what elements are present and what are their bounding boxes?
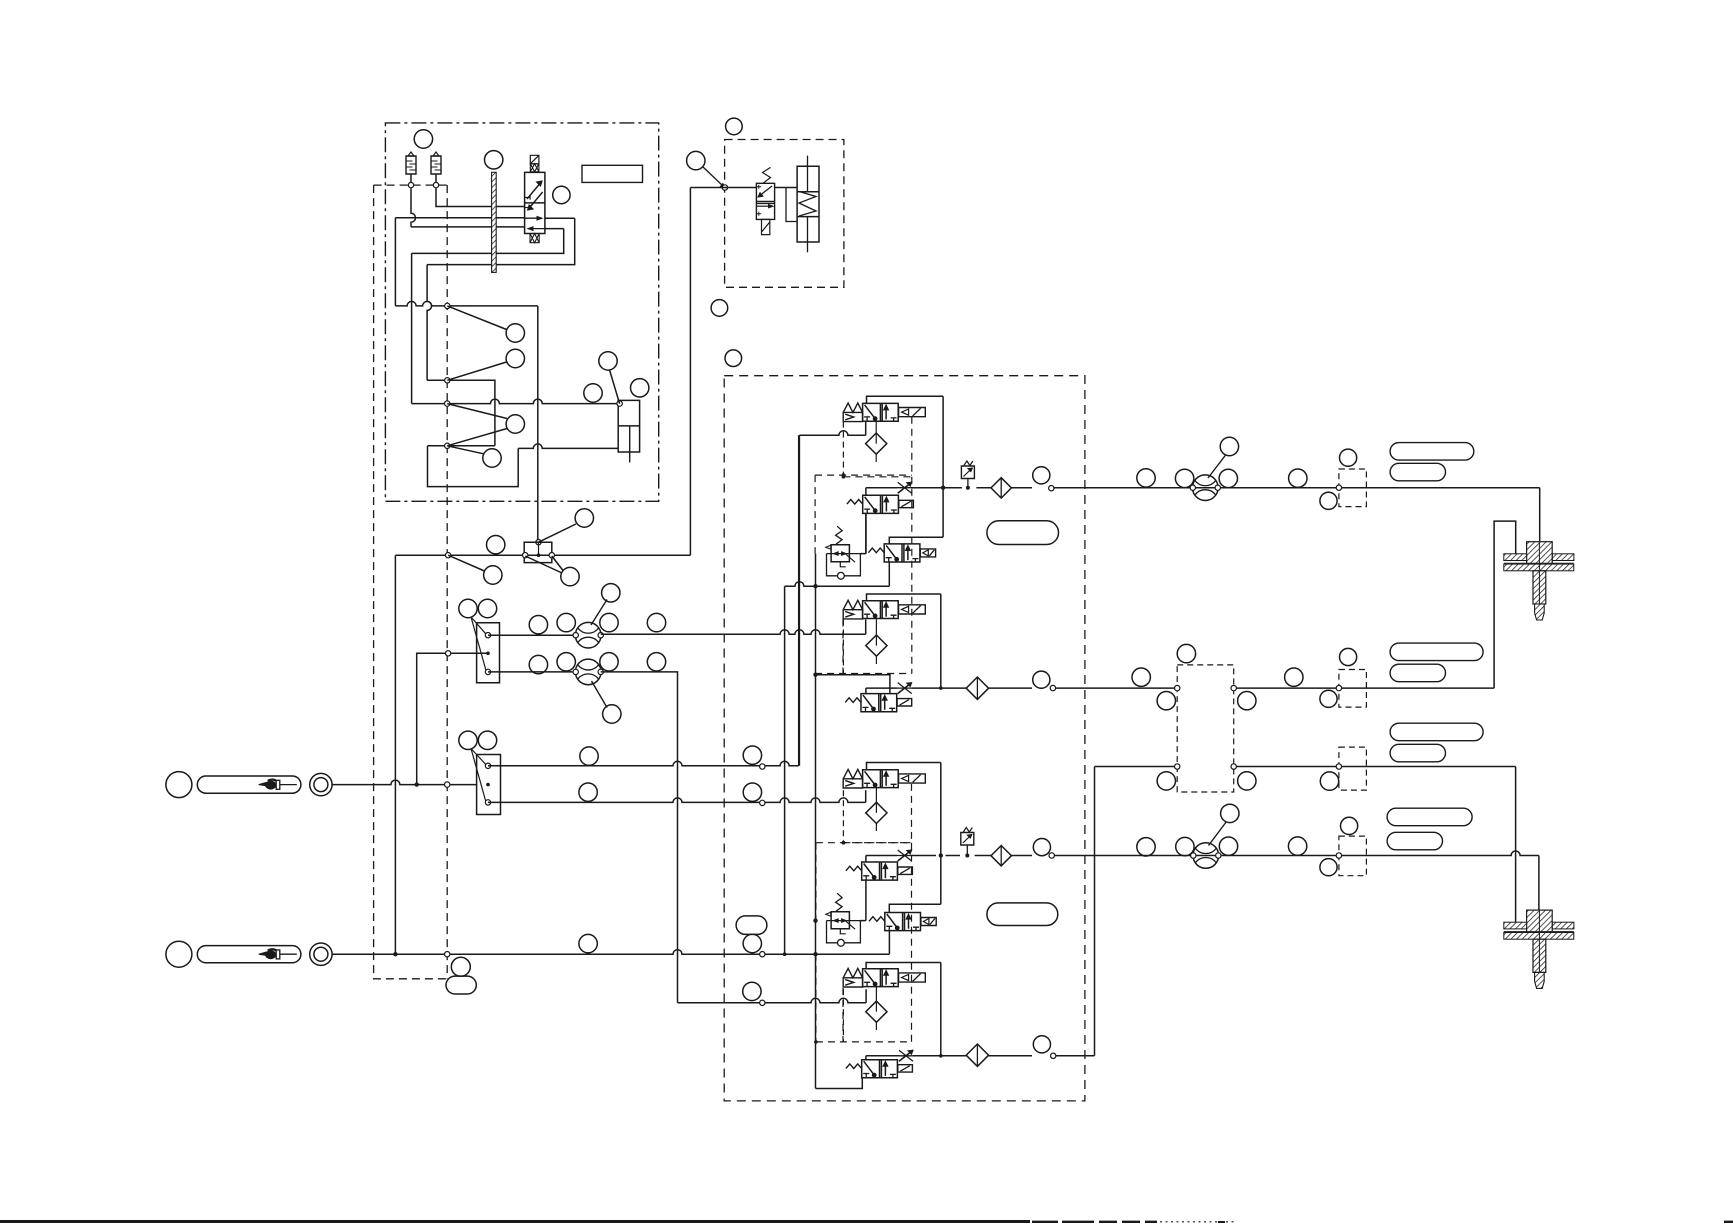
node row2 box bbox=[1050, 685, 1055, 690]
node row4 box bbox=[1049, 853, 1054, 858]
balloon below B1 bbox=[711, 300, 728, 317]
wire REG1 out bbox=[860, 553, 862, 555]
node row3 sq bbox=[1336, 764, 1341, 769]
lever BV4 bbox=[1209, 822, 1227, 846]
node cyl bbox=[617, 401, 622, 406]
node sw-in bbox=[536, 540, 541, 545]
enclosure A1 (dash-dot box) bbox=[385, 123, 658, 501]
star V2 bbox=[898, 482, 912, 493]
node bv2row bbox=[760, 1000, 765, 1005]
wire rowD out bbox=[866, 1055, 1095, 1057]
node row380 bbox=[445, 378, 450, 383]
muffler row3 b bbox=[1390, 744, 1445, 762]
node F2 bbox=[433, 182, 438, 187]
exhaust V9 dash bbox=[842, 989, 844, 1042]
cross actuator X2 bbox=[1527, 910, 1553, 935]
junction outD bbox=[939, 1054, 943, 1058]
ballvalve BV1 bbox=[575, 622, 601, 648]
check diamond D5 bbox=[966, 1044, 988, 1066]
diamond V4 bbox=[866, 635, 887, 656]
balloon row1 box bbox=[1033, 467, 1050, 484]
muffler row1 a bbox=[1390, 443, 1474, 461]
valve V6 bbox=[863, 770, 899, 788]
node lever1 bbox=[445, 782, 450, 787]
vertical right B bbox=[940, 594, 942, 688]
label box bbox=[582, 165, 643, 182]
riser V2 bbox=[865, 488, 867, 554]
balloon SV2 r3 bbox=[579, 934, 597, 952]
balloon B-in bbox=[687, 151, 705, 169]
wire F1 to valve bbox=[411, 188, 416, 227]
wire row4 right bbox=[1085, 851, 1539, 856]
wire V10 bottom bbox=[816, 1078, 863, 1089]
node row4 sq bbox=[1336, 853, 1341, 858]
wire row1 out bbox=[866, 487, 1085, 489]
node tdr l2 bbox=[1175, 685, 1180, 690]
wire V6 top bbox=[867, 763, 941, 770]
solenoid V0 top bbox=[530, 155, 539, 164]
U-loop manifold bbox=[428, 446, 519, 487]
wire row 403 bbox=[412, 399, 619, 404]
wire supply b bbox=[395, 217, 524, 219]
valve V10 bbox=[862, 1060, 898, 1078]
valve V1 bbox=[863, 403, 899, 421]
wire SV2 top out bbox=[488, 761, 799, 766]
wire row4 out bbox=[866, 855, 1085, 857]
star V5 bbox=[898, 683, 912, 694]
node SV1 mid447 bbox=[445, 651, 450, 656]
balloon sv2row802 bbox=[743, 783, 761, 801]
wire V3 bottom bbox=[888, 562, 890, 586]
balloons row2 sq bbox=[1340, 648, 1357, 665]
muffler row3 a bbox=[1390, 723, 1483, 741]
node lever2 dash bbox=[445, 952, 450, 957]
riser rowD-row3 bbox=[1094, 767, 1096, 1056]
balloon cyl r bbox=[631, 379, 649, 397]
valve VB arrows bbox=[758, 186, 772, 197]
leader row446a bbox=[447, 404, 507, 446]
balloon below B2 bbox=[725, 350, 742, 367]
node tdr l3 bbox=[1175, 764, 1180, 769]
node row555 bbox=[445, 553, 450, 558]
wire row 305 bbox=[395, 301, 537, 306]
wire H4 loop bbox=[412, 229, 564, 254]
balloon row446a bbox=[506, 415, 524, 433]
wire row1 right bbox=[1085, 487, 1540, 489]
balloon cyl top bbox=[599, 352, 617, 370]
junction outC bbox=[939, 853, 943, 857]
balloon SV2 b bbox=[478, 731, 496, 749]
node F1 bbox=[408, 182, 413, 187]
dashed box A1i bbox=[843, 417, 911, 477]
node tdr r2 bbox=[1231, 685, 1236, 690]
baseline bbox=[0, 1220, 1030, 1223]
balloon sw-b bbox=[561, 567, 579, 585]
balloon row305 bbox=[506, 324, 524, 342]
balloon rod bbox=[485, 151, 503, 169]
node row446 bbox=[445, 443, 450, 448]
balloon row446b bbox=[483, 449, 501, 467]
balloon SV1 a bbox=[459, 599, 477, 617]
balloon row380 bbox=[506, 349, 524, 367]
node sv2row802 bbox=[760, 800, 765, 805]
wire VB-CYL bbox=[775, 187, 797, 189]
wire row3 right bbox=[1095, 766, 1178, 768]
diamond V9 bbox=[866, 1001, 887, 1022]
cylinder CYL2 bbox=[797, 166, 819, 242]
enclosure A2 (tall dashed box) bbox=[374, 185, 448, 979]
selector SV1 body bbox=[477, 623, 500, 683]
wire SV1 mid bbox=[417, 653, 488, 784]
wire V0 right stubs bbox=[545, 218, 575, 228]
node row1 box bbox=[1049, 486, 1054, 491]
baseline text marks bbox=[1032, 1221, 1157, 1223]
selector SV2 body bbox=[477, 755, 501, 815]
wire F2 drop bbox=[435, 174, 437, 185]
exhaust V1 dash bbox=[842, 422, 844, 477]
balloon row2 box bbox=[1033, 671, 1050, 688]
hatched rod bbox=[492, 172, 497, 272]
dashed box C2i bbox=[816, 843, 912, 1042]
regulator REG2 bbox=[831, 912, 849, 929]
wire B to PS bbox=[690, 187, 725, 189]
wire V4 top bbox=[867, 594, 941, 601]
valve V8 bbox=[885, 913, 921, 931]
balloon BV1 bbox=[602, 584, 620, 602]
mini regulator MR2 bbox=[961, 833, 974, 846]
dashed box A2i bbox=[815, 475, 912, 673]
node sw-r bbox=[549, 553, 554, 558]
mini regulator MR1 bbox=[961, 466, 974, 479]
wire SV1 top out bbox=[488, 634, 576, 636]
wire lever2 bbox=[332, 950, 889, 955]
wire drop x538 bbox=[537, 306, 539, 542]
check diamond D1 bbox=[991, 478, 1011, 498]
cylinder CYL2 rod bbox=[807, 156, 809, 253]
balloons row3 bbox=[1157, 772, 1175, 790]
riser V8 bottom bbox=[888, 931, 890, 955]
node SV2 b bbox=[485, 800, 490, 805]
wire BV1 out bbox=[601, 630, 866, 635]
node row2 sq bbox=[1336, 685, 1341, 690]
wire V1 supply bbox=[799, 431, 865, 436]
vertical right D bbox=[940, 963, 942, 1056]
lever BV1 bbox=[591, 600, 607, 626]
balloon 1 bbox=[414, 130, 432, 148]
leader sw-r bbox=[552, 556, 563, 571]
riser supply1b bbox=[798, 435, 800, 766]
ballvalve BV2 bbox=[575, 659, 601, 685]
wire V8 top bbox=[889, 904, 941, 912]
leader B-in bbox=[703, 167, 725, 188]
valve V2 bbox=[863, 495, 899, 513]
wire REG2 out bbox=[860, 920, 866, 922]
valve V0 arrows bbox=[527, 181, 542, 199]
balloons row4 sq bbox=[1341, 817, 1358, 834]
ballvalve BV3 bbox=[1193, 475, 1219, 501]
balloon sv2row766 bbox=[743, 746, 761, 764]
junction x784 e bbox=[783, 952, 787, 956]
balloons row4 bbox=[1137, 838, 1155, 856]
star V7 bbox=[898, 850, 912, 861]
stadium lever2 mid bbox=[736, 916, 767, 935]
vertical right C bbox=[940, 763, 942, 905]
valve VB override bbox=[762, 219, 770, 234]
balloon sw-top bbox=[575, 509, 593, 527]
node SV2 t bbox=[485, 763, 490, 768]
balloon SV2 a bbox=[459, 731, 477, 749]
trunk x815 bbox=[815, 554, 817, 1089]
junction outB bbox=[939, 686, 943, 690]
exhaust V6 dash bbox=[842, 790, 844, 843]
star V10 bbox=[899, 1050, 913, 1061]
node tdr r3 bbox=[1231, 764, 1236, 769]
enclosure B (dashed box) bbox=[725, 140, 844, 288]
wire row 555 bbox=[395, 554, 690, 556]
balloon row4 box bbox=[1033, 839, 1050, 856]
riser V7 bbox=[865, 856, 867, 921]
valve V0 body bbox=[525, 172, 545, 233]
muffler row2 b bbox=[1390, 664, 1445, 682]
wire row2 out bbox=[866, 687, 1085, 689]
enclosure C (big dashed box) bbox=[724, 376, 1085, 1101]
lever BV3 bbox=[1208, 455, 1226, 479]
balloon below node447 bbox=[451, 957, 470, 976]
balloons row2 bbox=[1132, 668, 1150, 686]
node SV1 t bbox=[485, 633, 490, 638]
balloon cyl l bbox=[584, 384, 602, 402]
regulator REG1 bbox=[831, 545, 849, 562]
vertical x784 bbox=[784, 586, 786, 954]
stadium below node447 bbox=[446, 976, 476, 994]
node SV1 m bbox=[486, 652, 490, 656]
node lever2 mid bbox=[760, 952, 765, 957]
wire H5 loop bbox=[427, 218, 575, 264]
junction trunk reg2 bbox=[813, 918, 817, 922]
node B-in bbox=[722, 185, 727, 190]
muffler row2 a bbox=[1390, 643, 1483, 661]
cross actuator X1 bbox=[1527, 542, 1553, 567]
lever L1 bbox=[166, 772, 192, 798]
node row305 bbox=[445, 303, 450, 308]
dashed box C1i bbox=[843, 784, 911, 843]
balloons row1 bbox=[1137, 469, 1155, 487]
node SV1 b bbox=[485, 669, 490, 674]
leader cyl bbox=[610, 370, 620, 404]
dashed square row3 bbox=[1339, 747, 1367, 790]
wire row 446 bbox=[428, 445, 495, 447]
junction trunk 586 bbox=[813, 584, 817, 588]
balloon SV1 b bbox=[478, 599, 496, 617]
leader row305 bbox=[447, 306, 506, 330]
dash tail bbox=[1160, 1221, 1235, 1223]
solenoid V0 bottom bbox=[530, 234, 539, 243]
check diamond D4 bbox=[991, 846, 1011, 866]
wire V5 supply bbox=[816, 675, 890, 694]
wire BV2 out bbox=[601, 672, 678, 1003]
cylinder CYL1 bbox=[618, 400, 639, 452]
leader row555 bbox=[448, 555, 484, 571]
check diamond D2 bbox=[966, 677, 988, 699]
circles row1 bbox=[529, 616, 547, 634]
wire SV2 bot out bbox=[488, 798, 866, 803]
dashed square row4 bbox=[1339, 836, 1367, 876]
stadium bottom bbox=[987, 903, 1058, 926]
junction outA bbox=[941, 486, 945, 490]
node row1 sq bbox=[1336, 485, 1341, 490]
muffler row4 a bbox=[1387, 808, 1472, 826]
balloon row555a bbox=[487, 536, 505, 554]
muffler row4 b bbox=[1387, 832, 1442, 850]
node sv2row766 bbox=[760, 764, 765, 769]
dashed square row2 bbox=[1339, 670, 1367, 708]
node sw-l bbox=[523, 553, 528, 558]
balloon v0 bbox=[553, 186, 570, 203]
cylinder CYL2 spring bbox=[799, 192, 816, 216]
valve VB body bbox=[756, 183, 774, 219]
wire B node to valve bbox=[725, 187, 757, 189]
ballvalve BV4 bbox=[1193, 843, 1219, 869]
junction trunk lever2 bbox=[813, 952, 817, 956]
muffler row1 b bbox=[1390, 463, 1445, 481]
valve V4 bbox=[863, 601, 899, 619]
riser V10 bbox=[865, 1056, 867, 1060]
balloon above B bbox=[726, 118, 743, 135]
wire V9 top bbox=[866, 963, 941, 969]
wire left riser x395 bbox=[394, 555, 396, 954]
wire F2 to valve bbox=[436, 188, 525, 207]
dashed square row1 bbox=[1339, 469, 1367, 507]
valve V3 bbox=[884, 544, 920, 562]
stadium top bbox=[987, 521, 1059, 545]
filter F1 bbox=[408, 152, 414, 156]
balloon BV2 bbox=[603, 705, 621, 723]
riser V2-REG1 bbox=[863, 513, 866, 553]
tall dashed rect bbox=[1177, 665, 1234, 792]
leader row380 bbox=[447, 362, 506, 380]
circles row2 bbox=[529, 655, 547, 673]
diamond V6 bbox=[866, 802, 887, 823]
junction x395 lever2 bbox=[393, 952, 397, 956]
selector SV2 links bbox=[471, 749, 487, 803]
wire left riser A bbox=[394, 218, 396, 306]
node rowD box bbox=[1051, 1053, 1056, 1058]
balloon rowD box bbox=[1033, 1036, 1050, 1053]
balloon lever2 mid bbox=[743, 934, 761, 952]
balloon SV2 r2 bbox=[579, 783, 597, 801]
junction lever1 riser bbox=[415, 782, 419, 786]
wire V1 top bbox=[867, 396, 944, 403]
valve V5 bbox=[861, 694, 897, 712]
balloon SV2 r1 bbox=[580, 747, 598, 765]
diamond V1 bbox=[866, 433, 887, 454]
valve V7 bbox=[862, 862, 898, 880]
wire BV2 cross feed bbox=[678, 998, 867, 1003]
wire lever1 bbox=[332, 780, 476, 785]
vertical x690 bbox=[689, 188, 691, 556]
pressure switch PS bbox=[524, 542, 552, 562]
wire SV1 bot out bbox=[488, 671, 576, 673]
node SV2 m bbox=[486, 783, 490, 787]
wire row2 right bbox=[1085, 687, 1177, 689]
lever L2 bbox=[166, 941, 192, 967]
vertical right A bbox=[942, 396, 944, 537]
valve V9 bbox=[863, 969, 899, 987]
leader sw-top bbox=[539, 524, 577, 542]
lever BV2 bbox=[592, 681, 608, 708]
balloon bv2row bbox=[743, 982, 761, 1000]
node row403 bbox=[445, 401, 450, 406]
valve VB spring bbox=[763, 167, 771, 183]
riser V5 bbox=[865, 688, 867, 694]
balloon row555b bbox=[484, 566, 502, 584]
leader row446b bbox=[447, 446, 483, 454]
balloon BV3 bbox=[1220, 437, 1238, 455]
exhaust V4 dash bbox=[842, 620, 844, 674]
balloon BV4 bbox=[1221, 804, 1239, 822]
riser supply1 bbox=[798, 435, 800, 766]
wire row 380 bbox=[427, 380, 495, 446]
wire F1 drop bbox=[410, 174, 412, 185]
junction trunk 674 bbox=[813, 673, 817, 677]
selector SV1 links bbox=[471, 617, 487, 671]
filter F2 bbox=[433, 152, 439, 156]
leader sw-l bbox=[525, 556, 562, 573]
wire V3 top bbox=[889, 537, 943, 544]
balloons row1 sq bbox=[1340, 449, 1357, 466]
